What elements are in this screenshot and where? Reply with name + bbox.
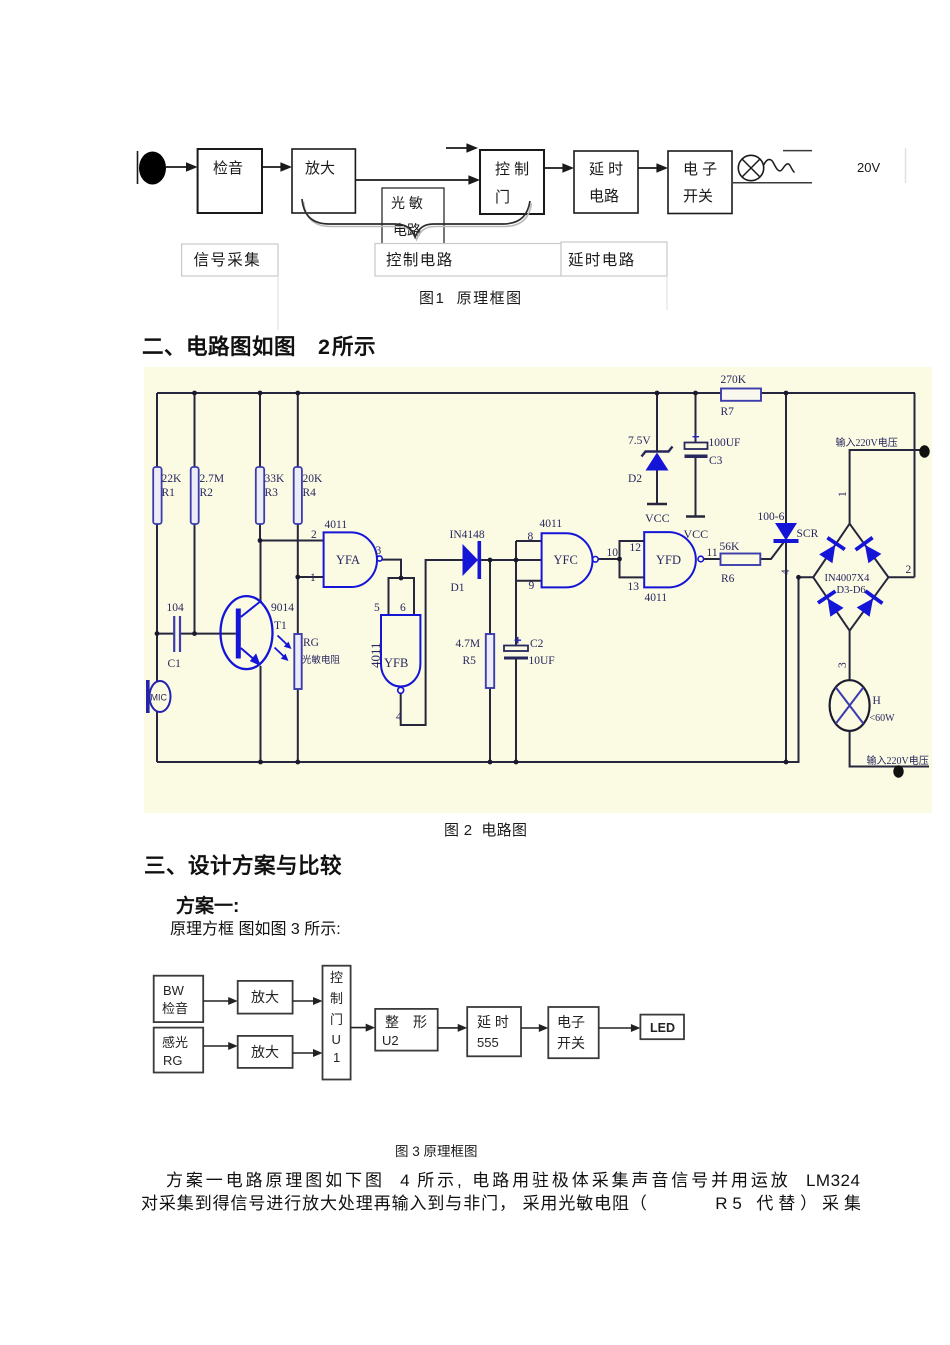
svg-text:+: + — [514, 633, 522, 648]
wire YFD output — [704, 558, 721, 560]
value label lamp H <60W — [870, 695, 896, 724]
svg-text:100-6: 100-6 — [758, 511, 785, 523]
lamp — [738, 155, 763, 180]
wire 延时电路 to 电子开关 — [638, 167, 661, 169]
svg-text:R3: R3 — [265, 487, 279, 499]
svg-text:整 形: 整 形 — [385, 1014, 427, 1030]
svg-text:检音: 检音 — [213, 160, 243, 177]
svg-text:放大: 放大 — [251, 989, 279, 1005]
svg-text:感光: 感光 — [162, 1035, 188, 1050]
svg-text:LED: LED — [650, 1021, 675, 1035]
resistor R1 — [153, 467, 161, 524]
svg-text:控制电路: 控制电路 — [386, 251, 454, 269]
lamp rails — [783, 150, 812, 152]
wire YFD input bridge — [620, 541, 645, 577]
svg-text:20K: 20K — [303, 473, 324, 485]
svg-text:10: 10 — [607, 547, 619, 559]
resistor R2 — [191, 467, 199, 524]
value label C3 100UF — [709, 437, 741, 467]
svg-text:555: 555 — [477, 1035, 499, 1050]
box 放大 — [292, 149, 355, 213]
resistor R3 — [256, 467, 264, 524]
svg-text:D1: D1 — [451, 582, 465, 594]
value label R4 20K — [303, 473, 324, 499]
svg-text:33K: 33K — [265, 473, 286, 485]
label box 信号采集 — [182, 244, 278, 276]
svg-text:4011: 4011 — [325, 519, 348, 531]
box 电子开关 — [548, 1007, 598, 1058]
box 感光 RG — [154, 1028, 204, 1073]
svg-text:4011: 4011 — [368, 642, 383, 668]
svg-text:+: + — [692, 429, 700, 444]
svg-text:放大: 放大 — [305, 160, 335, 177]
wire collector — [260, 541, 262, 602]
microphone input bar — [137, 151, 139, 184]
svg-text:9: 9 — [529, 580, 535, 592]
pin numbers YFB 5 6 4 — [374, 602, 406, 723]
svg-text:控: 控 — [330, 970, 343, 985]
wire R2 vertical — [194, 393, 196, 634]
op-gate YFB — [381, 615, 420, 687]
caption 图 2 — [444, 819, 527, 840]
svg-text:电路: 电路 — [589, 188, 619, 205]
wire RG to bottom rail — [297, 689, 299, 762]
svg-text:延时电路: 延时电路 — [568, 251, 636, 269]
svg-text:门: 门 — [495, 189, 510, 206]
label box 控制电路 — [375, 244, 561, 277]
wire base right — [180, 633, 236, 635]
wire bottom rail — [157, 761, 800, 763]
svg-text:VCC: VCC — [645, 511, 670, 525]
svg-text:H: H — [873, 695, 881, 707]
svg-text:RG: RG — [303, 637, 319, 649]
svg-text:制: 制 — [330, 991, 343, 1006]
svg-text:R4: R4 — [303, 487, 317, 499]
wire YFB output to D1 — [401, 560, 463, 725]
op-gate YFC — [542, 533, 593, 587]
wire pin8 of YFC — [516, 540, 542, 542]
svg-text:100UF: 100UF — [709, 437, 741, 449]
thyristor SCR — [775, 523, 797, 541]
svg-text:270K: 270K — [721, 374, 747, 386]
svg-text:1: 1 — [333, 1050, 340, 1065]
value label C1 104 — [167, 602, 185, 670]
resistor R4 — [294, 467, 302, 524]
svg-text:4011: 4011 — [645, 592, 668, 604]
svg-text:延 时: 延 时 — [477, 1014, 509, 1030]
arrow 整形 to 延时 — [438, 1027, 460, 1029]
svg-text:7.5V: 7.5V — [628, 435, 651, 447]
zener D2 — [642, 447, 673, 457]
squiggle — [764, 159, 795, 172]
wire C2 vertical upper — [515, 541, 517, 646]
svg-text:RG: RG — [163, 1053, 183, 1068]
wire D1 to YFC — [481, 559, 542, 561]
svg-text:R7: R7 — [721, 406, 735, 418]
resistor R6 — [721, 554, 761, 566]
box 电子开关 — [668, 151, 732, 214]
microphone MIC — [150, 681, 171, 712]
svg-text:56K: 56K — [720, 541, 741, 553]
wire 检音 to 放大 — [262, 166, 285, 168]
box LED — [640, 1015, 684, 1040]
svg-text:BW: BW — [163, 983, 185, 998]
box BW 检音 — [154, 976, 204, 1022]
arrow BW to 放大 — [203, 1000, 230, 1002]
bridge rectifier diamond — [813, 524, 888, 631]
wire YFC output — [598, 558, 619, 560]
brace shadow — [304, 202, 532, 240]
wire R5 vertical — [489, 560, 491, 762]
wire SCR cathode down — [785, 543, 787, 762]
svg-text:光敏电阻: 光敏电阻 — [302, 654, 341, 666]
svg-text:延 时: 延 时 — [589, 161, 623, 178]
op-gate YFA — [324, 532, 377, 587]
wire bridge top to 220V input — [850, 450, 924, 524]
value label SCR 100-6 — [758, 511, 819, 540]
diode D1 — [463, 544, 479, 576]
svg-text:5: 5 — [374, 602, 380, 614]
wire lamp to 220V output — [850, 731, 929, 767]
pin numbers YFD 12 13 11 — [628, 542, 718, 593]
value label RG 光敏电阻 — [302, 637, 341, 666]
svg-text:C1: C1 — [168, 658, 182, 670]
pin numbers YFA 1 2 3 — [310, 529, 382, 584]
microphone — [139, 152, 166, 185]
svg-text:8: 8 — [528, 531, 534, 543]
svg-text:R5: R5 — [463, 655, 477, 667]
svg-text:开关: 开关 — [683, 188, 713, 205]
value label R5 4.7M — [456, 638, 481, 667]
lamp H — [830, 680, 870, 731]
svg-text:4.7M: 4.7M — [456, 638, 481, 650]
resistor R5 — [486, 634, 494, 688]
photoresistor RG — [294, 634, 301, 689]
junction dots — [155, 391, 801, 765]
svg-text:4: 4 — [396, 711, 402, 723]
svg-text:YFD: YFD — [656, 553, 681, 567]
value label D1 IN4148 — [450, 529, 485, 594]
svg-text:2: 2 — [311, 529, 317, 541]
svg-text:控 制: 控 制 — [495, 161, 529, 178]
wire R3 vertical — [259, 393, 261, 541]
RG light arrows — [278, 636, 289, 646]
svg-text:<60W: <60W — [870, 713, 896, 724]
svg-text:IN4148: IN4148 — [450, 529, 485, 541]
arrow 电子开关 to LED — [599, 1027, 633, 1029]
wire bridge left corner — [799, 577, 814, 762]
svg-text:22K: 22K — [162, 473, 183, 485]
box 控制门 — [480, 150, 544, 214]
wire YFB input bridge — [389, 578, 415, 615]
svg-text:U2: U2 — [382, 1033, 399, 1048]
wire SCR anode — [785, 393, 787, 523]
resistor R7 — [721, 389, 761, 401]
svg-text:2.7M: 2.7M — [200, 473, 225, 485]
capacitor C3 — [685, 443, 708, 450]
svg-text:YFC: YFC — [554, 553, 578, 567]
wire 放大 to 控制门 — [355, 179, 472, 181]
arrow 放大 to 控制门 upper — [293, 1000, 315, 1002]
svg-text:R2: R2 — [200, 487, 214, 499]
op-gate YFD — [644, 532, 696, 587]
box 控制门 U1 — [323, 966, 351, 1080]
wire base left — [157, 633, 174, 635]
box 放大 upper — [238, 981, 293, 1014]
wire mic to jianyin — [166, 166, 190, 168]
arrow 放大 to 控制门 lower — [293, 1052, 315, 1054]
wire D2 lower — [656, 470, 658, 504]
brace (under 放大..控制门) — [302, 199, 530, 237]
value label T1 9014 — [271, 602, 294, 632]
ground bar D2 — [647, 503, 667, 506]
terminal dot 220V top — [919, 445, 929, 457]
wire top rail — [157, 392, 915, 394]
pin numbers YFC 8 9 10 — [528, 531, 619, 592]
wire right vertical — [914, 393, 916, 577]
value label D2 7.5V — [628, 435, 651, 485]
wire 控制门 to 延时电路 — [544, 167, 567, 169]
bridge diode top-right — [854, 536, 883, 565]
svg-text:SCR: SCR — [797, 528, 819, 540]
svg-text:VCC: VCC — [684, 527, 709, 541]
wire R6 to SCR gate — [760, 543, 783, 560]
value label R3 33K — [265, 473, 286, 499]
svg-text:IN4007X4: IN4007X4 — [825, 573, 871, 584]
svg-text:20V: 20V — [857, 160, 880, 175]
svg-text:3: 3 — [376, 545, 382, 557]
svg-text:图1 原理框图: 图1 原理框图 — [419, 290, 523, 307]
wire YFA output — [382, 560, 401, 578]
svg-text:10UF: 10UF — [529, 655, 555, 667]
svg-text:11: 11 — [707, 547, 718, 559]
svg-text:D3-D6: D3-D6 — [837, 585, 866, 596]
wire bridge bottom to lamp — [849, 631, 851, 681]
box 光敏电路 — [382, 188, 444, 247]
svg-text:D2: D2 — [628, 473, 642, 485]
svg-text:2: 2 — [906, 564, 912, 576]
schematic background — [144, 367, 932, 813]
svg-text:输入220V电压: 输入220V电压 — [867, 754, 929, 767]
svg-text:R6: R6 — [721, 573, 735, 585]
svg-text:放大: 放大 — [251, 1044, 279, 1060]
wire bridge right corner — [888, 576, 914, 578]
svg-text:信号采集: 信号采集 — [194, 251, 262, 269]
wire pin1 of YFA — [298, 576, 324, 578]
arrow 感光 to 放大 — [203, 1045, 230, 1047]
bridge diode top-left — [817, 536, 846, 565]
box 整形 U2 — [375, 1009, 438, 1051]
box 延时电路 — [574, 151, 638, 213]
label box 延时电路 — [561, 242, 667, 276]
svg-text:1: 1 — [837, 491, 849, 497]
svg-text:门: 门 — [330, 1012, 343, 1027]
svg-text:4011: 4011 — [540, 518, 563, 530]
caption 图 3 — [395, 1140, 478, 1160]
value label R7 270K — [721, 374, 747, 418]
value label R2 2.7M — [200, 473, 225, 499]
svg-text:T1: T1 — [274, 620, 287, 632]
svg-text:光 敏: 光 敏 — [391, 195, 423, 211]
box 放大 lower — [238, 1036, 293, 1068]
value label R6 56K — [720, 541, 741, 585]
svg-text:U: U — [332, 1032, 341, 1047]
bridge diode bottom-left — [817, 590, 846, 619]
svg-text:开关: 开关 — [557, 1035, 585, 1051]
box 检音 — [198, 149, 262, 213]
svg-text:4: 4 — [780, 569, 792, 575]
svg-text:YFB: YFB — [384, 656, 408, 670]
value label R1 22K — [162, 473, 183, 499]
wire emitter vertical — [260, 666, 262, 762]
svg-text:R1: R1 — [162, 487, 176, 499]
svg-text:YFA: YFA — [336, 553, 360, 567]
capacitor C2 — [504, 646, 528, 652]
arrow 延时 to 电子开关 — [521, 1027, 541, 1029]
transistor T1 — [221, 596, 273, 669]
wire R4 vertical — [297, 393, 299, 634]
value label C2 10UF — [529, 638, 555, 667]
ground bar C3 — [686, 515, 705, 518]
value label bridge IN4007X4 D3-D6 — [825, 573, 871, 596]
svg-text:104: 104 — [167, 602, 185, 614]
wire pin9 of YFC — [516, 580, 542, 582]
wire C3 lower — [695, 458, 697, 517]
bridge diode bottom-right — [855, 589, 884, 618]
capacitor C1 plates — [173, 616, 175, 652]
arrow 控制门 to 整形 — [351, 1027, 368, 1029]
svg-text:电 子: 电 子 — [683, 161, 717, 178]
svg-text:输入220V电压: 输入220V电压 — [836, 436, 898, 449]
svg-text:C2: C2 — [530, 638, 544, 650]
paragraph — [166, 1166, 860, 1191]
terminal dot 220V bottom — [893, 765, 903, 777]
svg-text:1: 1 — [310, 572, 316, 584]
wire C2 vertical lower — [515, 660, 517, 763]
wire pin2 of YFA — [260, 540, 324, 542]
svg-text:MIC: MIC — [151, 693, 168, 703]
wire left vertical — [156, 393, 158, 762]
svg-text:电子: 电子 — [557, 1014, 585, 1030]
arrow above 控制门 — [446, 147, 471, 149]
svg-text:C3: C3 — [709, 455, 723, 467]
svg-text:13: 13 — [628, 581, 640, 593]
svg-text:9014: 9014 — [271, 602, 294, 614]
svg-text:检音: 检音 — [162, 1001, 188, 1016]
box 延时 555 — [467, 1007, 521, 1056]
svg-text:6: 6 — [400, 602, 406, 614]
wire C3 vertical — [695, 393, 697, 443]
wire D2 vertical — [656, 393, 658, 451]
faint separator right — [905, 148, 907, 183]
faint guides — [277, 276, 279, 330]
svg-text:12: 12 — [630, 542, 642, 554]
svg-text:3: 3 — [837, 662, 849, 668]
